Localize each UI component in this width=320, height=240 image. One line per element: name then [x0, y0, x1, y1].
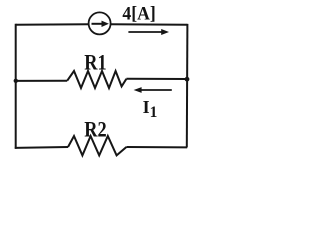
- wire bottom-right segment: [126, 146, 187, 148]
- wire bottom-left segment: [15, 146, 68, 149]
- current source: [89, 12, 111, 34]
- resistor R1: [67, 71, 126, 88]
- arrow source-current direction: [128, 29, 169, 35]
- arrow I1 direction: [134, 87, 172, 93]
- junction node right: [185, 77, 190, 82]
- svg-text:4[A]: 4[A]: [122, 3, 155, 24]
- wire middle-left segment: [16, 80, 67, 82]
- wire left: [15, 24, 17, 149]
- wire top-left segment: [16, 23, 89, 26]
- resistor R2: [68, 136, 126, 155]
- svg-text:I1: I1: [143, 97, 158, 121]
- wire top-right segment: [111, 23, 188, 26]
- svg-text:R2: R2: [84, 118, 106, 142]
- wire middle-right segment: [126, 78, 187, 80]
- wire right: [186, 24, 189, 147]
- junction node left: [14, 79, 18, 83]
- svg-text:R1: R1: [84, 51, 106, 75]
